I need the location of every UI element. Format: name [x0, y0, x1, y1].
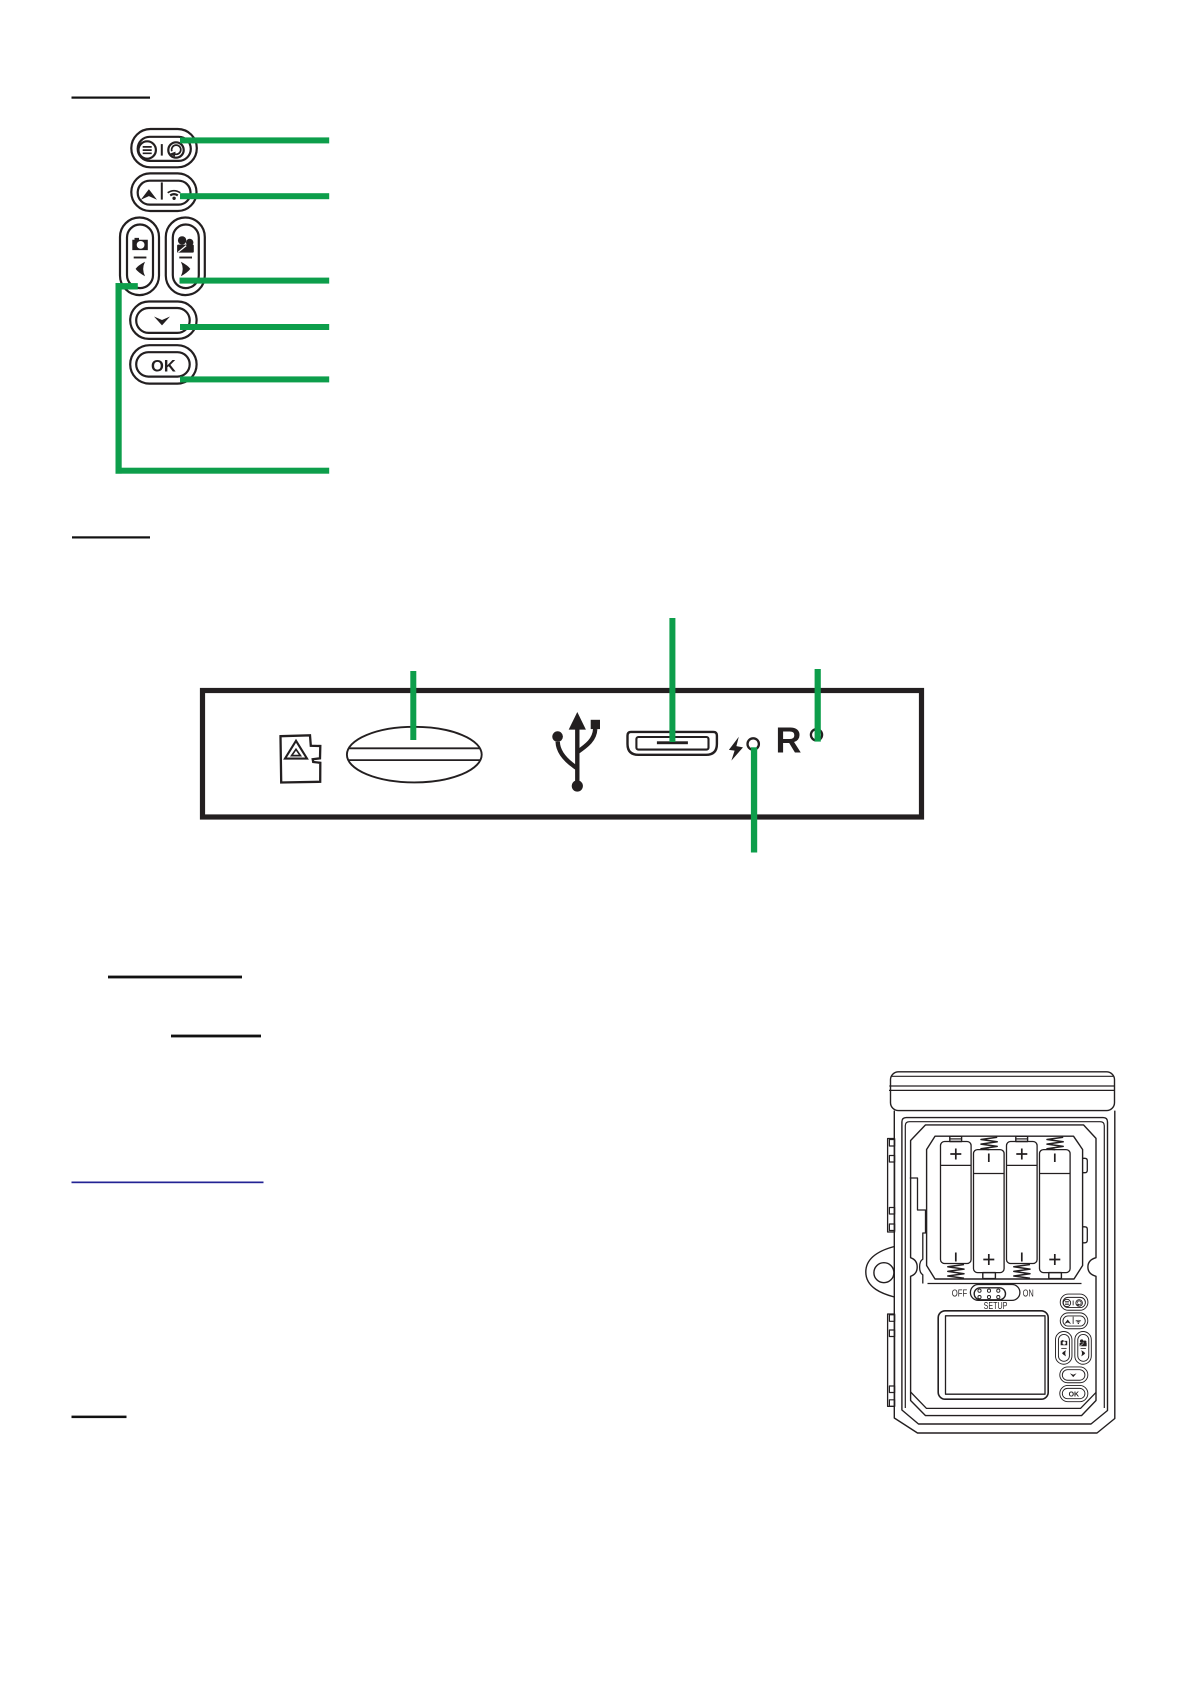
green leader line 4 (down)	[180, 324, 329, 330]
charge LED hole	[748, 738, 759, 749]
green leader line 3 (video/right)	[180, 278, 330, 284]
microSD card icon	[281, 735, 321, 782]
USB symbol	[552, 712, 600, 792]
green leader line 2 (up/wifi)	[180, 193, 329, 199]
battery box bottom line	[928, 1283, 1082, 1285]
charge lightning icon	[729, 737, 743, 761]
green leader line 1 (menu/playback)	[180, 137, 329, 143]
menu/playback button	[131, 129, 197, 167]
camera top cap	[889, 1072, 1115, 1111]
power switch	[970, 1285, 1020, 1301]
camera body outline	[894, 1111, 1115, 1433]
green leader line A (SD slot)	[410, 671, 416, 740]
heading 2 underline	[72, 536, 150, 538]
hyperlink underline	[72, 1182, 264, 1184]
svg-text:R: R	[776, 720, 802, 761]
heading 3 underline	[108, 976, 242, 979]
inner panel	[911, 1125, 1096, 1416]
green leader line 5 (OK)	[180, 376, 329, 382]
small button cluster on camera back	[1055, 1294, 1091, 1402]
LCD screen	[938, 1311, 1048, 1399]
latch rail bottom	[888, 1314, 895, 1406]
button cluster (top-left)	[120, 129, 205, 384]
heading 4 underline	[171, 1035, 261, 1038]
SD slot oval	[347, 727, 482, 783]
photo/left button	[120, 218, 159, 296]
latch rail top	[888, 1139, 895, 1233]
box edge tabs right	[1083, 1158, 1088, 1243]
battery 1	[941, 1136, 972, 1278]
strip frame	[203, 691, 922, 818]
recess steps left	[910, 1178, 926, 1284]
USB port	[628, 732, 717, 755]
heading 5 underline	[72, 1416, 127, 1419]
back cover inner outline	[902, 1118, 1108, 1424]
battery compartment drawing	[866, 1072, 1115, 1433]
battery 3	[1007, 1136, 1038, 1278]
inner panel bottom seam	[911, 1392, 1096, 1408]
OK button	[130, 345, 196, 383]
green leader line C (reset hole)	[815, 669, 821, 742]
reset hole	[811, 729, 822, 740]
video/right button	[166, 218, 205, 296]
ports strip	[203, 691, 922, 818]
green leader line B (USB port)	[669, 618, 675, 742]
green L leader (photo/left button)	[116, 283, 330, 474]
battery box	[927, 1136, 1083, 1279]
green leader line D (charge LED)	[751, 747, 757, 852]
heading 1 underline	[72, 97, 151, 99]
svg-text:ON: ON	[1023, 1289, 1034, 1300]
strap loop	[866, 1247, 895, 1298]
svg-text:OFF: OFF	[952, 1289, 967, 1300]
down button	[130, 302, 196, 339]
up/wifi button	[131, 173, 196, 211]
battery 4	[1040, 1137, 1071, 1278]
svg-text:OK: OK	[151, 357, 176, 375]
back cover seam line	[905, 1122, 1104, 1408]
battery 2	[974, 1137, 1005, 1278]
